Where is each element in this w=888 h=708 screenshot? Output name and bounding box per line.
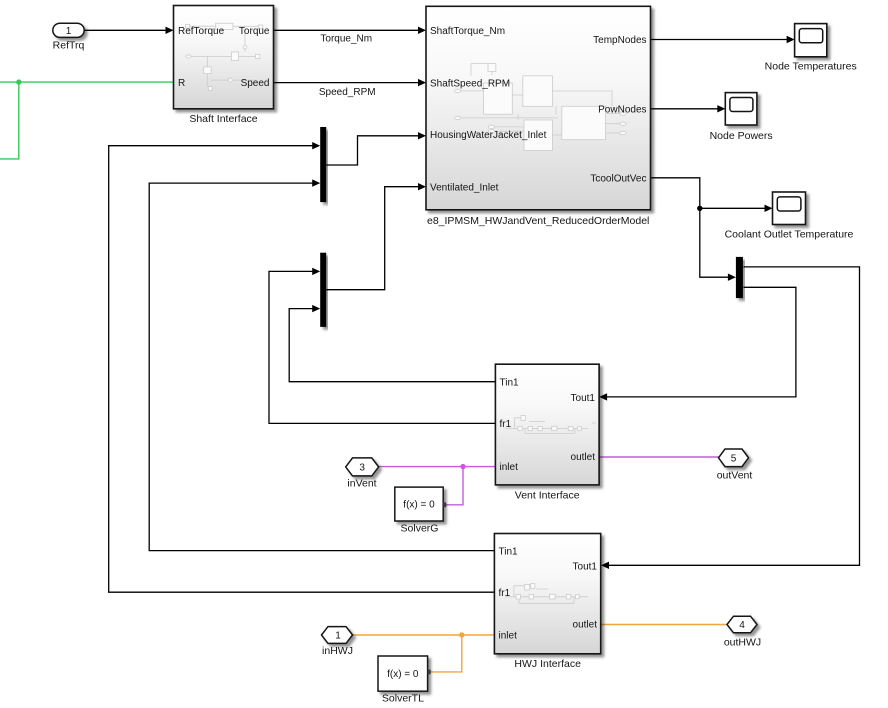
svg-text:inlet: inlet: [499, 631, 518, 642]
svg-text:HWJ Interface: HWJ Interface: [514, 658, 581, 670]
svg-text:ShaftTorque_Nm: ShaftTorque_Nm: [430, 26, 505, 37]
svg-text:RefTrq: RefTrq: [53, 40, 85, 52]
svg-text:f(x) = 0: f(x) = 0: [387, 669, 419, 680]
svg-text:4: 4: [739, 620, 745, 631]
svg-text:R: R: [178, 78, 185, 89]
svg-text:Node Temperatures: Node Temperatures: [765, 61, 857, 73]
svg-text:Ventilated_Inlet: Ventilated_Inlet: [430, 182, 499, 193]
svg-text:Tin1: Tin1: [499, 546, 519, 557]
svg-text:RefTorque: RefTorque: [178, 26, 225, 37]
svg-text:Coolant Outlet Temperature: Coolant Outlet Temperature: [725, 229, 854, 241]
svg-text:1: 1: [66, 26, 72, 37]
svg-text:outHWJ: outHWJ: [724, 636, 761, 648]
svg-text:5: 5: [731, 454, 737, 465]
svg-text:outlet: outlet: [573, 619, 598, 630]
svg-text:inVent: inVent: [347, 478, 376, 490]
svg-text:Tout1: Tout1: [573, 561, 598, 572]
svg-text:e8_IPMSM_HWJandVent_ReducedOrd: e8_IPMSM_HWJandVent_ReducedOrderModel: [427, 215, 649, 227]
svg-text:HousingWaterJacket_Inlet: HousingWaterJacket_Inlet: [430, 130, 547, 141]
svg-text:1: 1: [335, 631, 341, 642]
svg-text:Vent Interface: Vent Interface: [515, 489, 580, 501]
svg-text:SolverTL: SolverTL: [382, 692, 424, 704]
svg-text:3: 3: [359, 463, 365, 474]
svg-text:Shaft Interface: Shaft Interface: [189, 113, 257, 125]
svg-text:Tin1: Tin1: [500, 377, 520, 388]
svg-text:Torque: Torque: [239, 26, 270, 37]
svg-text:ShaftSpeed_RPM: ShaftSpeed_RPM: [430, 78, 510, 89]
svg-text:fr1: fr1: [500, 419, 512, 430]
svg-text:SolverG: SolverG: [401, 523, 439, 535]
svg-text:outVent: outVent: [717, 469, 753, 481]
svg-text:Tout1: Tout1: [571, 393, 596, 404]
svg-text:inHWJ: inHWJ: [322, 645, 353, 657]
svg-text:PowNodes: PowNodes: [598, 104, 646, 115]
svg-text:Node Powers: Node Powers: [710, 130, 773, 142]
svg-text:Speed_RPM: Speed_RPM: [319, 87, 376, 98]
svg-text:Torque_Nm: Torque_Nm: [320, 33, 372, 44]
svg-text:inlet: inlet: [500, 462, 519, 473]
svg-text:TcoolOutVec: TcoolOutVec: [590, 173, 646, 184]
svg-text:f(x) = 0: f(x) = 0: [403, 500, 435, 511]
svg-text:Speed: Speed: [241, 78, 270, 89]
svg-text:TempNodes: TempNodes: [593, 35, 646, 46]
svg-text:fr1: fr1: [499, 588, 511, 599]
svg-text:outlet: outlet: [571, 452, 596, 463]
